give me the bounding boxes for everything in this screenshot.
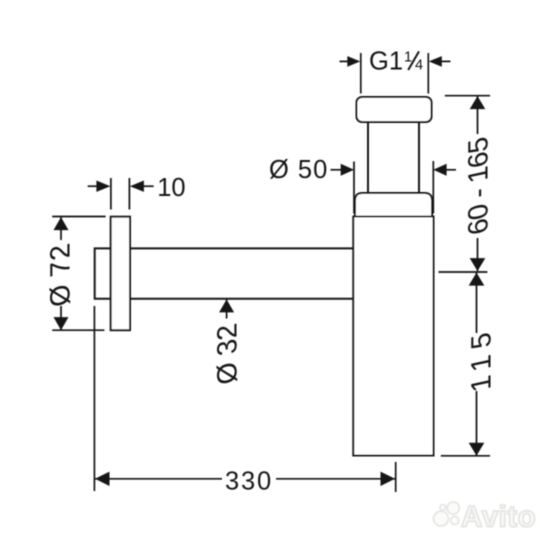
svg-text:Ø 32: Ø 32 [211, 321, 243, 388]
svg-text:G1: G1 [369, 48, 403, 76]
neck pipe (threaded connector tube) [368, 122, 419, 193]
svg-text:4: 4 [415, 57, 423, 73]
svg-text:330: 330 [225, 467, 273, 495]
dimension 10 extension lines [111, 178, 129, 210]
reference line bottom (body bottom datum) [441, 455, 490, 457]
dimension G1 1/4 left arrow [340, 56, 361, 67]
dimension 330 extension lines [94, 306, 395, 492]
svg-text:Ø 72: Ø 72 [44, 241, 76, 310]
dimension D50 right arrow [433, 164, 456, 176]
dimension 330 line and arrows [95, 472, 395, 486]
dimension 60-165 line and arrows [470, 96, 486, 271]
coupling nut [355, 193, 432, 217]
watermark avito logo circles [434, 502, 460, 526]
wall pipe stub [95, 248, 111, 298]
dimension 115 line and arrows [469, 273, 485, 456]
wall escutcheon flange [111, 217, 130, 331]
label G1 1/4 [369, 48, 423, 76]
dimension D72 line and arrows [54, 217, 69, 330]
dimension 10 left arrow [88, 181, 111, 192]
top flange (inlet nut) [357, 97, 432, 122]
svg-text:Avito: Avito [461, 501, 536, 534]
svg-text:10: 10 [157, 174, 185, 202]
dimension G1 1/4 right arrow [429, 56, 451, 67]
reference line middle (pipe axis datum) [439, 271, 488, 273]
dimension D72 extension lines [52, 217, 105, 331]
dimension G1 1/4 extension lines [361, 53, 429, 94]
dimension D50 left arrow [331, 164, 355, 176]
horizontal waste pipe [130, 248, 353, 298]
svg-text:60 - 165: 60 - 165 [462, 135, 494, 238]
svg-text:Ø 50: Ø 50 [269, 156, 328, 184]
svg-text:1: 1 [404, 50, 412, 66]
svg-text:115: 115 [465, 323, 497, 395]
dimension 10 right arrow [130, 181, 154, 192]
dimension D32 arrow [219, 299, 234, 318]
siphon body (cup) [353, 217, 433, 456]
reference line top (60-165 upper datum) [445, 95, 490, 97]
dimension D50 extension lines [354, 161, 433, 214]
